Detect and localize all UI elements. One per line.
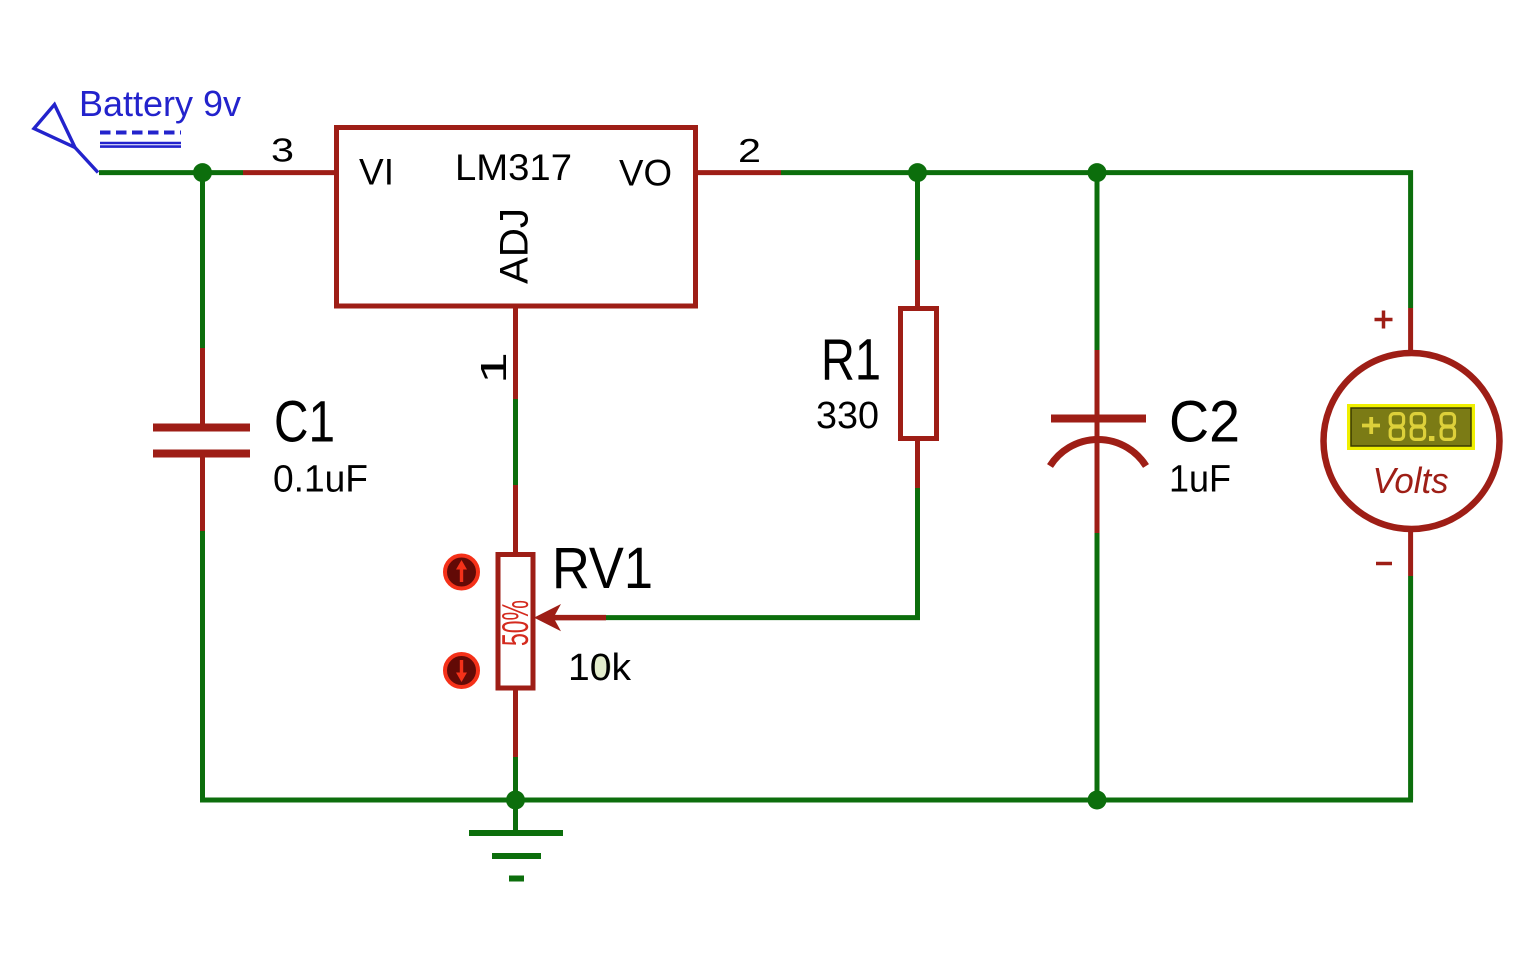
capacitor C1	[153, 348, 250, 531]
voltmeter negative terminal	[1376, 529, 1411, 576]
regulator U1 LM317 body	[337, 128, 696, 307]
svg-text:50%: 50%	[495, 600, 536, 646]
battery BT1 label "Battery 9v"	[79, 83, 241, 147]
potentiometer RV1	[495, 485, 606, 757]
RV1 up button	[445, 556, 478, 589]
voltmeter LCD panel	[1347, 404, 1475, 450]
node bottom junction	[1088, 791, 1107, 810]
svg-text:Battery 9v: Battery 9v	[79, 83, 241, 124]
node output junction at R1	[908, 163, 927, 182]
node input junction	[193, 163, 212, 182]
svg-text:C1: C1	[274, 390, 335, 455]
wire C2 to bottom rail	[1095, 533, 1100, 800]
resistor R1	[901, 260, 937, 488]
voltmeter LCD digits +88.8	[1362, 414, 1455, 441]
svg-text:ADJ: ADJ	[493, 208, 537, 284]
wire ADJ to RV1	[513, 399, 518, 485]
node ground junction	[506, 791, 525, 810]
wire voltmeter to bottom rail	[1408, 576, 1413, 800]
wire node to C2	[1095, 173, 1100, 350]
svg-text:VO: VO	[619, 153, 672, 194]
svg-text:0.1uF: 0.1uF	[273, 459, 368, 501]
svg-text:C2: C2	[1169, 390, 1240, 455]
RV1 down button	[445, 654, 478, 687]
svg-text:10k: 10k	[568, 647, 632, 689]
ground symbol	[469, 800, 563, 879]
node output junction at C2	[1088, 163, 1107, 182]
wire R1 to RV1 wiper	[606, 488, 918, 618]
svg-text:3: 3	[271, 132, 294, 169]
wire bottom rail	[200, 798, 1413, 803]
svg-text:330: 330	[816, 395, 879, 437]
voltmeter positive terminal	[1375, 308, 1411, 353]
svg-text:Volts: Volts	[1373, 460, 1449, 501]
regulator U1 pin 2	[695, 132, 781, 173]
label RV1 value 10k	[568, 647, 632, 689]
svg-text:R1: R1	[821, 328, 881, 393]
svg-text:2: 2	[738, 132, 761, 169]
svg-text:LM317: LM317	[455, 147, 572, 188]
wire node to R1	[915, 173, 920, 260]
wire top rail left (battery to node)	[99, 170, 243, 175]
svg-text:RV1: RV1	[552, 536, 653, 601]
wire left rail lower (C1 to bottom rail)	[200, 531, 205, 800]
wire RV1 to ground node	[513, 757, 518, 800]
svg-text:VI: VI	[359, 152, 394, 193]
wire top rail right (pin 2 to right corner)	[781, 173, 1411, 308]
wire left rail upper (node down to C1)	[200, 173, 205, 348]
svg-text:1: 1	[473, 352, 514, 384]
battery BT1 terminal symbol	[34, 105, 98, 173]
capacitor C2	[1050, 350, 1146, 533]
regulator U1 pin 1 (ADJ)	[473, 306, 516, 399]
voltmeter body	[1324, 353, 1500, 529]
regulator U1 pin 3	[243, 132, 338, 173]
svg-text:1uF: 1uF	[1169, 459, 1231, 501]
